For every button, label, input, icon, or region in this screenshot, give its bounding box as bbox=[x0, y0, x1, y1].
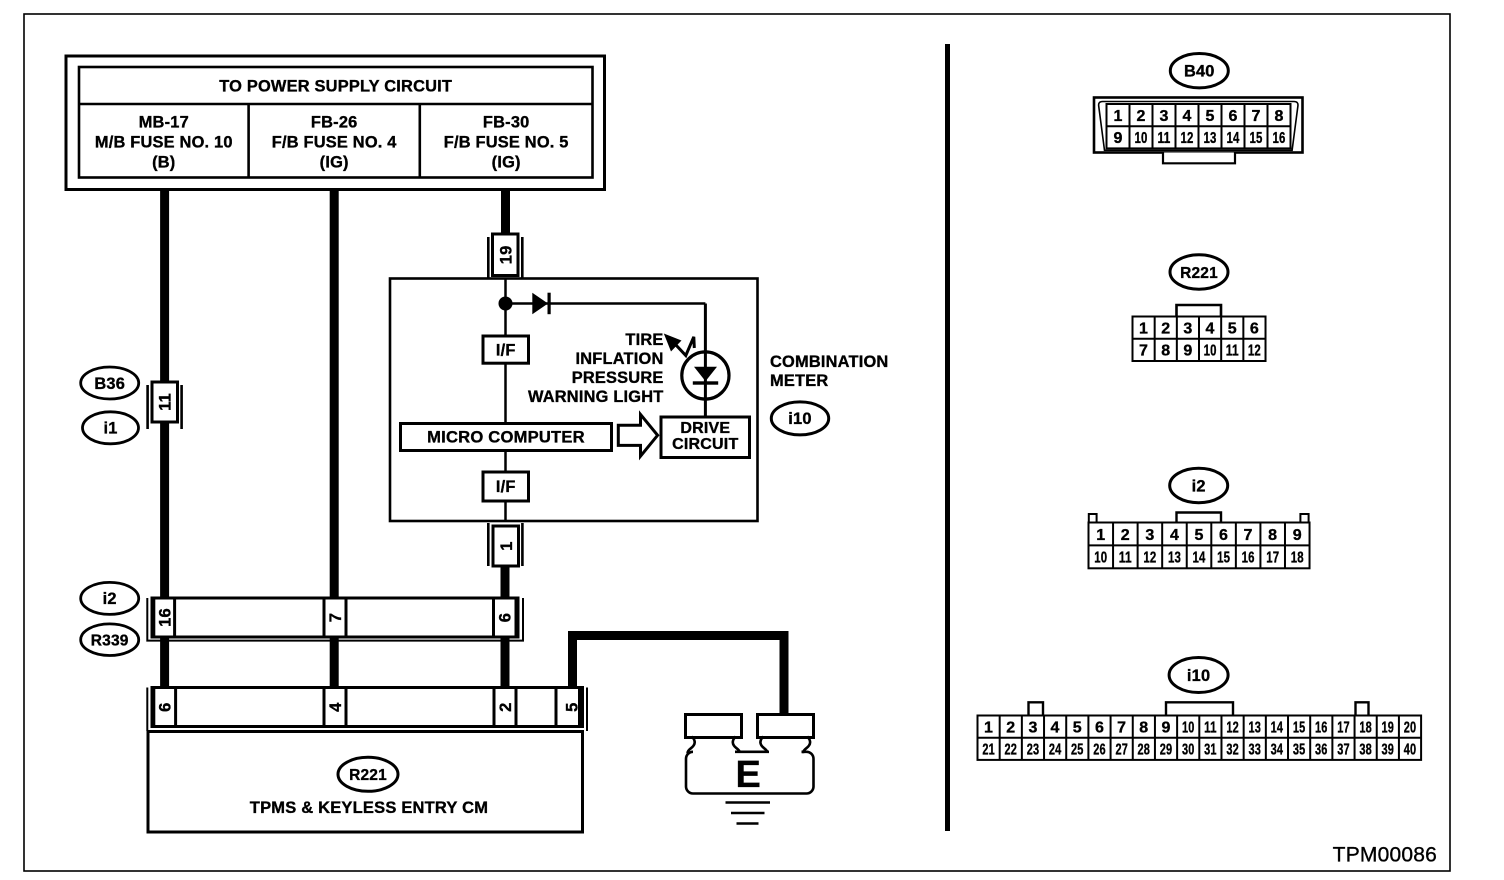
svg-text:21: 21 bbox=[982, 742, 995, 759]
svg-text:FB-26: FB-26 bbox=[311, 114, 358, 132]
svg-text:INFLATION: INFLATION bbox=[576, 350, 664, 368]
flash arrow bbox=[664, 334, 695, 356]
svg-text:TPMS & KEYLESS ENTRY CM: TPMS & KEYLESS ENTRY CM bbox=[250, 799, 488, 817]
svg-text:CIRCUIT: CIRCUIT bbox=[672, 436, 738, 453]
svg-text:MICRO COMPUTER: MICRO COMPUTER bbox=[427, 428, 585, 447]
svg-text:METER: METER bbox=[770, 372, 828, 390]
svg-text:30: 30 bbox=[1182, 742, 1195, 759]
wire pin 16 to pin 6 bbox=[160, 636, 169, 689]
svg-text:2: 2 bbox=[1161, 320, 1170, 337]
svg-text:7: 7 bbox=[1117, 719, 1126, 736]
block arrow bbox=[618, 414, 657, 456]
svg-text:13: 13 bbox=[1248, 719, 1261, 736]
svg-text:12: 12 bbox=[1226, 719, 1239, 736]
svg-text:34: 34 bbox=[1271, 742, 1284, 759]
oval i10 bbox=[771, 402, 828, 435]
ground E bbox=[686, 715, 814, 824]
wire FB-30 to connector 19 bbox=[501, 188, 510, 235]
svg-text:31: 31 bbox=[1204, 742, 1217, 759]
svg-text:1: 1 bbox=[1139, 320, 1148, 337]
wire I/F to micro computer bbox=[504, 363, 507, 424]
svg-text:5: 5 bbox=[1228, 320, 1237, 337]
connector view i10 bbox=[978, 658, 1422, 760]
pin 16 bbox=[154, 598, 175, 637]
svg-text:18: 18 bbox=[1291, 550, 1304, 567]
wire connector 11 to pin 16 bbox=[160, 421, 169, 600]
svg-text:R221: R221 bbox=[1180, 265, 1218, 282]
svg-text:8: 8 bbox=[1161, 343, 1170, 360]
svg-text:12: 12 bbox=[1248, 343, 1261, 360]
pin 7 bbox=[324, 598, 346, 637]
svg-text:TIRE: TIRE bbox=[625, 331, 663, 349]
svg-text:(IG): (IG) bbox=[492, 154, 521, 172]
pin 4 bbox=[324, 688, 346, 727]
connector row R221 top bbox=[147, 688, 587, 732]
svg-text:5: 5 bbox=[1194, 527, 1203, 544]
svg-text:i10: i10 bbox=[1187, 667, 1210, 685]
svg-text:F/B FUSE NO. 4: F/B FUSE NO. 4 bbox=[272, 134, 398, 152]
wire micro computer to I/F bbox=[504, 451, 507, 473]
power supply box bbox=[66, 56, 605, 190]
fuse FB-30 bbox=[444, 114, 569, 172]
drive circuit bbox=[661, 417, 750, 458]
svg-text:4: 4 bbox=[1051, 719, 1060, 736]
svg-text:12: 12 bbox=[1143, 550, 1156, 567]
svg-text:B40: B40 bbox=[1184, 63, 1215, 81]
svg-text:R221: R221 bbox=[349, 767, 387, 784]
svg-text:32: 32 bbox=[1226, 742, 1239, 759]
svg-text:I/F: I/F bbox=[496, 341, 516, 359]
oval B36 bbox=[81, 367, 139, 399]
connector view B40 bbox=[1094, 53, 1303, 163]
svg-text:18: 18 bbox=[1359, 719, 1372, 736]
svg-text:F/B FUSE NO. 5: F/B FUSE NO. 5 bbox=[444, 134, 569, 152]
svg-text:7: 7 bbox=[1139, 343, 1148, 360]
pin 5 bbox=[556, 688, 582, 727]
pin 6 bbox=[494, 598, 517, 637]
svg-text:15: 15 bbox=[1250, 130, 1263, 147]
wire pin 7 to pin 4 bbox=[330, 636, 339, 689]
svg-text:35: 35 bbox=[1293, 742, 1306, 759]
svg-text:20: 20 bbox=[1404, 719, 1417, 736]
svg-text:16: 16 bbox=[1273, 130, 1286, 147]
svg-text:B36: B36 bbox=[94, 375, 125, 393]
svg-text:2: 2 bbox=[1006, 719, 1015, 736]
svg-text:TO POWER SUPPLY CIRCUIT: TO POWER SUPPLY CIRCUIT bbox=[219, 78, 452, 96]
svg-text:10: 10 bbox=[1094, 550, 1107, 567]
svg-text:27: 27 bbox=[1115, 742, 1128, 759]
combination meter box bbox=[390, 279, 758, 522]
svg-text:DRIVE: DRIVE bbox=[680, 420, 730, 437]
svg-text:11: 11 bbox=[1226, 343, 1239, 360]
svg-text:13: 13 bbox=[1168, 550, 1181, 567]
svg-text:4: 4 bbox=[1170, 527, 1179, 544]
svg-text:(B): (B) bbox=[152, 154, 175, 172]
svg-text:16: 16 bbox=[1242, 550, 1255, 567]
svg-text:11: 11 bbox=[1158, 130, 1171, 147]
svg-text:E: E bbox=[736, 754, 762, 796]
svg-text:2: 2 bbox=[497, 703, 515, 712]
diode D1 bbox=[532, 293, 550, 315]
svg-text:9: 9 bbox=[1183, 343, 1192, 360]
svg-text:14: 14 bbox=[1227, 130, 1240, 147]
pin 6 bbox=[154, 688, 176, 727]
svg-text:14: 14 bbox=[1193, 550, 1206, 567]
svg-text:4: 4 bbox=[327, 702, 345, 712]
svg-text:I/F: I/F bbox=[496, 478, 516, 496]
connector 19 bbox=[488, 234, 522, 279]
svg-text:2: 2 bbox=[1136, 108, 1145, 125]
svg-text:9: 9 bbox=[1293, 527, 1302, 544]
svg-text:i1: i1 bbox=[103, 420, 117, 438]
svg-text:3: 3 bbox=[1028, 719, 1037, 736]
svg-text:15: 15 bbox=[1293, 719, 1306, 736]
svg-text:8: 8 bbox=[1139, 719, 1148, 736]
svg-text:WARNING LIGHT: WARNING LIGHT bbox=[528, 388, 664, 406]
wire FB-26 to pin 7 bbox=[330, 188, 339, 600]
fuse MB-17 bbox=[95, 114, 233, 172]
svg-text:PRESSURE: PRESSURE bbox=[572, 369, 664, 387]
svg-text:6: 6 bbox=[497, 613, 515, 622]
combination meter label bbox=[770, 353, 888, 390]
svg-text:12: 12 bbox=[1181, 130, 1194, 147]
svg-text:19: 19 bbox=[1382, 719, 1395, 736]
svg-text:36: 36 bbox=[1315, 742, 1328, 759]
wire 19 to I/F bbox=[504, 279, 507, 337]
connector 1 bbox=[488, 523, 522, 566]
svg-text:3: 3 bbox=[1183, 320, 1192, 337]
svg-text:i10: i10 bbox=[788, 410, 811, 428]
svg-text:R339: R339 bbox=[91, 633, 129, 650]
oval R221 bbox=[338, 757, 398, 791]
svg-text:37: 37 bbox=[1337, 742, 1350, 759]
svg-text:6: 6 bbox=[1228, 108, 1237, 125]
svg-text:TPM00086: TPM00086 bbox=[1333, 844, 1437, 867]
svg-text:i2: i2 bbox=[1192, 477, 1206, 495]
connector view i2 bbox=[1089, 468, 1310, 568]
svg-text:9: 9 bbox=[1113, 130, 1122, 147]
wire pin 6 to pin 2 bbox=[501, 636, 510, 689]
wire connector 1 to pin 6 bbox=[501, 564, 510, 600]
svg-text:5: 5 bbox=[1073, 719, 1082, 736]
svg-text:2: 2 bbox=[1121, 527, 1130, 544]
svg-text:11: 11 bbox=[1204, 719, 1217, 736]
micro computer U1 bbox=[401, 424, 612, 451]
oval i2 bbox=[81, 582, 139, 614]
fuse FB-26 bbox=[272, 114, 398, 172]
svg-text:5: 5 bbox=[564, 703, 582, 712]
svg-text:29: 29 bbox=[1160, 742, 1173, 759]
svg-text:17: 17 bbox=[1266, 550, 1279, 567]
svg-text:3: 3 bbox=[1145, 527, 1154, 544]
warning light label bbox=[528, 331, 664, 406]
svg-text:7: 7 bbox=[327, 613, 345, 622]
divider line bbox=[945, 44, 950, 831]
wire junction to LED bbox=[506, 302, 706, 305]
I/F interface lower bbox=[483, 472, 529, 501]
connector 11 bbox=[148, 382, 182, 429]
svg-text:11: 11 bbox=[1119, 550, 1132, 567]
svg-text:15: 15 bbox=[1217, 550, 1230, 567]
svg-text:14: 14 bbox=[1271, 719, 1284, 736]
TPMS box bbox=[148, 732, 583, 833]
svg-text:(IG): (IG) bbox=[320, 154, 349, 172]
pin 2 bbox=[494, 688, 516, 727]
svg-text:1: 1 bbox=[1113, 108, 1122, 125]
LED warning light bbox=[682, 352, 729, 399]
connector view R221 bbox=[1133, 255, 1266, 361]
svg-text:COMBINATION: COMBINATION bbox=[770, 353, 888, 371]
svg-text:6: 6 bbox=[1095, 719, 1104, 736]
connector row i2-R339 bbox=[147, 598, 523, 641]
svg-text:6: 6 bbox=[1250, 320, 1259, 337]
svg-text:11: 11 bbox=[157, 393, 175, 411]
svg-text:6: 6 bbox=[157, 703, 175, 712]
svg-text:26: 26 bbox=[1093, 742, 1106, 759]
oval R339 bbox=[81, 624, 139, 656]
wire I/F to connector 1 bbox=[504, 501, 507, 521]
svg-text:38: 38 bbox=[1359, 742, 1372, 759]
svg-text:24: 24 bbox=[1049, 742, 1062, 759]
I/F interface upper bbox=[483, 336, 529, 363]
svg-text:i2: i2 bbox=[103, 590, 117, 608]
svg-text:1: 1 bbox=[1096, 527, 1105, 544]
svg-text:13: 13 bbox=[1204, 130, 1217, 147]
svg-text:10: 10 bbox=[1135, 130, 1148, 147]
oval i1 bbox=[83, 412, 139, 444]
svg-text:8: 8 bbox=[1268, 527, 1277, 544]
svg-text:1: 1 bbox=[498, 541, 516, 550]
wire pin 5 to ground bbox=[573, 636, 785, 716]
svg-text:10: 10 bbox=[1204, 343, 1217, 360]
svg-text:6: 6 bbox=[1219, 527, 1228, 544]
svg-text:16: 16 bbox=[157, 608, 175, 627]
svg-text:10: 10 bbox=[1182, 719, 1195, 736]
svg-text:3: 3 bbox=[1159, 108, 1168, 125]
svg-text:33: 33 bbox=[1248, 742, 1261, 759]
svg-text:1: 1 bbox=[984, 719, 993, 736]
svg-text:39: 39 bbox=[1382, 742, 1395, 759]
svg-text:8: 8 bbox=[1274, 108, 1283, 125]
svg-text:28: 28 bbox=[1138, 742, 1151, 759]
svg-text:17: 17 bbox=[1337, 719, 1350, 736]
svg-text:4: 4 bbox=[1206, 320, 1215, 337]
svg-text:19: 19 bbox=[498, 245, 516, 264]
svg-text:22: 22 bbox=[1005, 742, 1018, 759]
svg-text:4: 4 bbox=[1182, 108, 1191, 125]
node junction bbox=[499, 297, 512, 310]
svg-text:16: 16 bbox=[1315, 719, 1328, 736]
svg-text:5: 5 bbox=[1205, 108, 1214, 125]
svg-text:25: 25 bbox=[1071, 742, 1084, 759]
svg-text:7: 7 bbox=[1251, 108, 1260, 125]
svg-text:FB-30: FB-30 bbox=[483, 114, 530, 132]
svg-text:9: 9 bbox=[1161, 719, 1170, 736]
svg-text:40: 40 bbox=[1404, 742, 1417, 759]
svg-text:MB-17: MB-17 bbox=[139, 114, 189, 132]
svg-text:23: 23 bbox=[1027, 742, 1040, 759]
wire MB-17 to connector 11 bbox=[160, 188, 169, 384]
svg-text:7: 7 bbox=[1244, 527, 1253, 544]
svg-text:M/B FUSE NO. 10: M/B FUSE NO. 10 bbox=[95, 134, 233, 152]
